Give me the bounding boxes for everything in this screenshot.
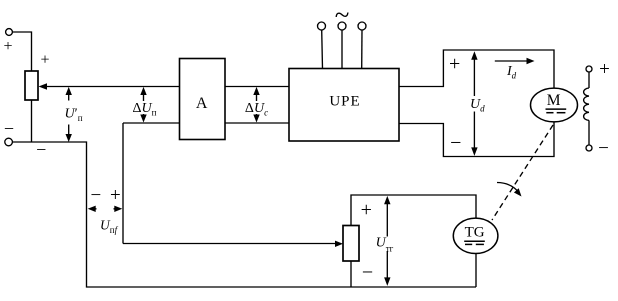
svg-text:−: − xyxy=(450,132,461,154)
wire feedback to TG potentiometer wiper (arrow) xyxy=(123,241,343,247)
svg-text:TG: TG xyxy=(465,224,485,240)
wire UPE to motor loop top xyxy=(399,50,554,88)
wire TG bottom xyxy=(475,253,477,287)
svg-text:−: − xyxy=(4,118,14,138)
svg-text:−: − xyxy=(598,138,609,159)
svg-text:+: + xyxy=(40,52,49,69)
wire field top xyxy=(588,72,590,88)
svg-text:+: + xyxy=(361,199,372,221)
wire T1 to potentiometer RP1 top xyxy=(12,32,31,71)
wire T2 lower rail to feedback bottom xyxy=(12,142,476,287)
ac terminal 3 xyxy=(358,22,366,69)
TG loop top wire xyxy=(351,195,476,226)
wire RP2 bottom xyxy=(350,261,352,287)
svg-text:Uтг: Uтг xyxy=(376,236,394,254)
voltage arrows Utg xyxy=(384,196,390,286)
svg-text:−: − xyxy=(362,262,373,284)
ac terminal 2 xyxy=(338,22,346,69)
wire RP1 bottom xyxy=(31,100,33,143)
wire field bottom xyxy=(588,120,590,145)
field winding terminal - xyxy=(586,145,592,151)
svg-text:U′п: U′п xyxy=(65,107,83,124)
potentiometer RP1 xyxy=(25,71,38,100)
wire A bottom input from feedback xyxy=(123,122,180,124)
voltage arrows Upf xyxy=(88,206,123,212)
feedback vertical from A input xyxy=(122,123,124,244)
svg-text:+: + xyxy=(599,59,610,80)
dashed shaft motor to TG xyxy=(492,125,553,220)
svg-text:Ud: Ud xyxy=(470,97,485,114)
rotation arrow xyxy=(497,183,522,197)
ac terminal 1 xyxy=(318,22,326,69)
field winding terminal + xyxy=(586,66,592,72)
amplifier block A xyxy=(180,59,226,140)
wire UPE to motor loop bottom xyxy=(399,122,554,157)
svg-text:Id: Id xyxy=(506,64,517,81)
svg-text:ΔUп: ΔUп xyxy=(133,101,157,118)
svg-text:−: − xyxy=(36,139,46,159)
tachogenerator TG xyxy=(453,218,498,253)
terminal T1 (+) xyxy=(6,29,13,36)
voltage arrows dUc xyxy=(253,87,259,123)
TG potentiometer RP2 xyxy=(343,226,359,262)
svg-text:+: + xyxy=(3,38,12,55)
current arrow Id xyxy=(495,58,535,64)
voltage arrows dUp xyxy=(140,87,146,123)
voltage arrows Ud xyxy=(471,51,477,156)
converter block UPE xyxy=(289,69,399,142)
svg-text:+: + xyxy=(449,53,460,75)
svg-text:+: + xyxy=(110,185,121,206)
svg-text:Uпf: Uпf xyxy=(100,218,119,236)
svg-text:ΔUc: ΔUc xyxy=(245,101,268,118)
wire A to UPE top xyxy=(225,86,289,88)
field winding coil xyxy=(584,88,589,120)
wire A to UPE bottom xyxy=(225,122,289,124)
svg-text:M: M xyxy=(547,92,561,109)
terminal T2 (-) xyxy=(5,138,13,146)
wire RP1 wiper to amplifier A input (arrow into RP1) xyxy=(39,83,180,89)
svg-text:A: A xyxy=(196,95,208,112)
motor M xyxy=(531,88,578,122)
svg-text:UPE: UPE xyxy=(329,94,360,110)
svg-text:−: − xyxy=(90,185,101,206)
voltage arrows U'p xyxy=(66,87,72,142)
